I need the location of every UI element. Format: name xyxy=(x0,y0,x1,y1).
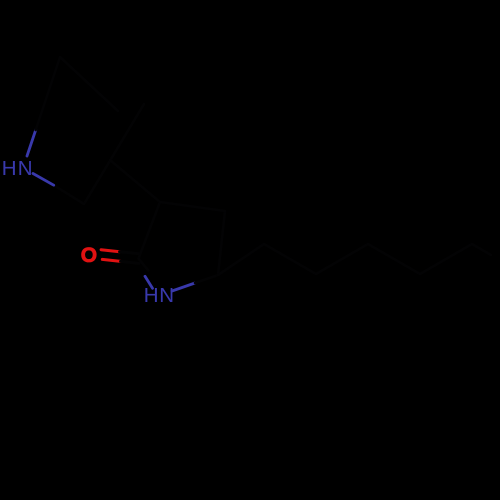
piperidine ring: N1-C2 bond (blue half near N) xyxy=(27,57,60,156)
linker bond to lactam xyxy=(110,160,160,202)
svg-text:H: H xyxy=(144,284,159,307)
svg-text:H: H xyxy=(2,157,17,180)
lactam N2-LC5 bond (blue half near N) xyxy=(172,275,218,291)
chain bond 2 xyxy=(264,244,316,274)
lactam LC3-C1 bond xyxy=(139,202,161,259)
svg-text:N: N xyxy=(18,157,33,180)
ring C5-N1 bond (blue half near N) xyxy=(33,174,84,205)
lactam LC4-LC3 bond xyxy=(160,202,225,211)
svg-text:N: N xyxy=(159,284,174,307)
svg-text:O: O xyxy=(81,244,97,267)
lactam C1-N2 bond (blue half near N) xyxy=(139,259,153,289)
lactam LC5-LC4 bond xyxy=(218,211,225,275)
chain bond 1 xyxy=(218,244,264,275)
ring bond C2-C3 (descending from apex) xyxy=(60,57,118,111)
chain bond 6 (fades at right) xyxy=(472,244,491,255)
ring steep bond C4-C5 xyxy=(84,104,144,204)
chain bond 5 xyxy=(420,244,472,274)
chain bond 4 xyxy=(368,244,420,274)
carbonyl C=O double bond (red halves near O) xyxy=(101,250,139,264)
chain bond 3 xyxy=(316,244,368,274)
